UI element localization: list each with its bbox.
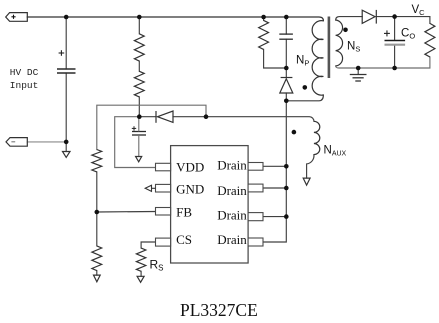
svg-text:FB: FB bbox=[176, 205, 192, 220]
pin GND box bbox=[156, 184, 171, 192]
diode output rectifier bbox=[362, 10, 376, 24]
node primary phase dot bbox=[303, 85, 308, 90]
pin VDD box bbox=[156, 163, 171, 171]
wire drain pin 3 bbox=[263, 216, 286, 218]
wire FB tap from aux node bbox=[97, 105, 206, 149]
resistor startup R1 bbox=[134, 34, 144, 61]
resistor load bbox=[425, 23, 435, 57]
node aux phase dot bbox=[292, 130, 297, 135]
diode clamp bbox=[280, 78, 293, 94]
svg-text:NP: NP bbox=[296, 55, 309, 68]
node junction 4 bbox=[284, 15, 289, 20]
capacitor snubber bbox=[279, 34, 293, 39]
wire secondary top to output diode bbox=[336, 17, 363, 20]
node junction 16 bbox=[95, 210, 100, 215]
ground bulk input bbox=[63, 152, 71, 158]
wire snubber resistor leads bbox=[264, 17, 287, 68]
node junction 13 bbox=[284, 164, 289, 169]
node junction 2 bbox=[137, 15, 142, 20]
wire drain pin 2 bbox=[263, 187, 286, 189]
resistor startup R2 bbox=[134, 71, 144, 97]
resistor snubber bbox=[259, 20, 269, 49]
svg-text:VDD: VDD bbox=[176, 159, 204, 174]
node junction 10 bbox=[392, 14, 397, 19]
wire secondary bottom rail bbox=[336, 57, 430, 68]
wire Rs to ground bbox=[140, 271, 142, 276]
node junction 1 bbox=[64, 15, 69, 20]
wire VDD pin connection bbox=[115, 117, 156, 168]
svg-text:Input: Input bbox=[10, 80, 39, 91]
wire bulk capacitor leads bbox=[65, 17, 67, 152]
diode VDD rectifier bbox=[156, 111, 173, 123]
node junction 3 bbox=[261, 15, 266, 20]
resistor Rs current sense bbox=[136, 248, 145, 271]
ground aux bbox=[303, 178, 310, 185]
node junction 15 bbox=[284, 214, 289, 219]
terminal - input bbox=[6, 138, 27, 147]
wire drain pin 1 bbox=[263, 165, 286, 167]
wire VDD node to diode bbox=[139, 116, 156, 118]
resistor FB lower bbox=[92, 246, 102, 271]
node secondary phase dot bbox=[343, 28, 348, 33]
transformer core bbox=[328, 17, 331, 79]
node junction 8 bbox=[284, 66, 289, 71]
wire top HV rail bbox=[27, 17, 323, 21]
transformer secondary Ns bbox=[336, 20, 343, 66]
capacitor output Co bbox=[385, 40, 406, 42]
svg-text:GND: GND bbox=[176, 181, 204, 196]
wire aux winding to ground bbox=[307, 155, 314, 179]
svg-text:CO: CO bbox=[401, 28, 415, 41]
capacitor VDD bbox=[132, 132, 146, 136]
svg-text:NS: NS bbox=[347, 41, 360, 54]
wire FB divider vertical bbox=[97, 172, 156, 275]
capacitor bulk input bbox=[57, 69, 76, 73]
transformer aux winding Naux bbox=[314, 121, 320, 154]
pin Drain3 box bbox=[248, 213, 263, 221]
wire negative input rail bbox=[27, 141, 66, 143]
node junction 9 bbox=[284, 99, 289, 104]
pin Drain4 box bbox=[248, 238, 263, 246]
pin GND arrow bbox=[145, 185, 155, 191]
wire Vc node to load resistor bbox=[395, 17, 430, 24]
terminal + input bbox=[6, 13, 28, 22]
svg-text:CS: CS bbox=[176, 232, 192, 247]
ground VDD cap bbox=[136, 157, 142, 162]
svg-text:Drain: Drain bbox=[217, 157, 247, 172]
ground Rs bbox=[137, 276, 144, 282]
pin Drain1 box bbox=[248, 163, 263, 171]
node junction 11 bbox=[356, 66, 361, 71]
wire snubber capacitor leads bbox=[285, 17, 287, 68]
svg-text:HV DC: HV DC bbox=[10, 67, 39, 78]
transformer primary Np bbox=[312, 21, 323, 96]
wire drain bus bbox=[263, 101, 286, 242]
op-amp U1 PL3327CE body bbox=[171, 146, 249, 263]
svg-text:PL3327CE: PL3327CE bbox=[180, 300, 258, 320]
node junction 6 bbox=[137, 114, 142, 119]
node junction 12 bbox=[392, 66, 397, 71]
wire secondary ground stem bbox=[357, 68, 359, 74]
ground secondary earth bbox=[350, 75, 367, 82]
pin CS box bbox=[156, 238, 171, 246]
svg-text:RS: RS bbox=[150, 258, 164, 273]
resistor FB upper bbox=[92, 150, 102, 172]
wire diode to Vc node bbox=[376, 16, 394, 18]
wire output cap leads bbox=[394, 17, 396, 68]
wire clamp diode leads bbox=[285, 68, 287, 101]
svg-text:Drain: Drain bbox=[217, 232, 247, 247]
ground FB divider bbox=[94, 275, 101, 282]
svg-text:Drain: Drain bbox=[217, 183, 247, 198]
wire diode anode to aux winding bbox=[173, 117, 314, 122]
svg-text:Drain: Drain bbox=[217, 207, 247, 222]
wire CS pin to Rs bbox=[141, 242, 155, 248]
node junction 14 bbox=[284, 186, 289, 191]
svg-text:VC: VC bbox=[412, 4, 426, 17]
pin FB box bbox=[156, 208, 171, 216]
wire primary bottom to drain bus bbox=[286, 95, 323, 101]
node junction 7 bbox=[204, 114, 209, 119]
pin Drain2 box bbox=[248, 184, 263, 192]
node junction 5 bbox=[64, 140, 69, 145]
wire startup resistor chain bbox=[138, 17, 140, 117]
svg-text:NAUX: NAUX bbox=[324, 145, 347, 158]
